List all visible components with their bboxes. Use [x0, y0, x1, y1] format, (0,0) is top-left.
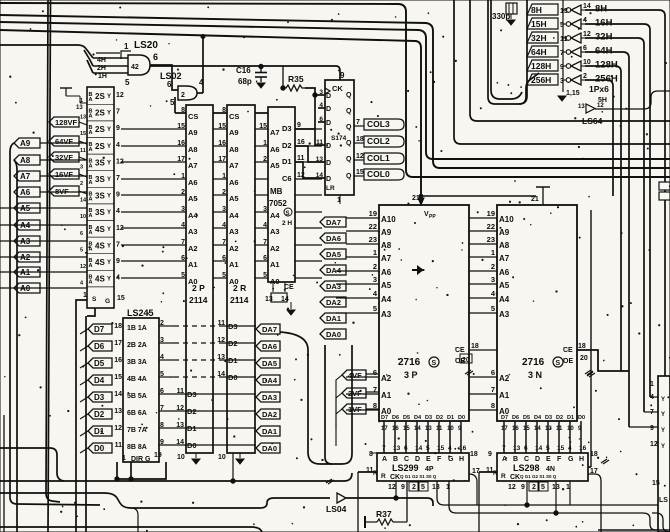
- 3N Vpp tee: [536, 186, 550, 188]
- wire inverter input rail: [519, 0, 527, 104]
- net tag 32VF: [49, 152, 79, 162]
- wire nest line from top edge B: [470, 0, 670, 121]
- svg-text:A1: A1: [270, 260, 280, 269]
- net tag DA0 at EPROM: [320, 329, 346, 339]
- svg-text:Q: Q: [346, 92, 352, 99]
- net tag D7: [88, 324, 112, 334]
- svg-text:A5: A5: [381, 281, 392, 290]
- svg-text:2S: 2S: [95, 125, 105, 134]
- svg-text:2 H: 2 H: [282, 220, 292, 227]
- net tag 1VF: [342, 404, 366, 414]
- svg-text:8VF: 8VF: [55, 187, 69, 196]
- svg-text:2H: 2H: [97, 65, 106, 72]
- svg-text:C: C: [524, 456, 529, 463]
- svg-text:A7: A7: [20, 172, 31, 181]
- RAM U2P 2114 box: [186, 105, 213, 453]
- svg-text:13: 13: [393, 445, 401, 452]
- svg-text:H: H: [579, 456, 584, 463]
- svg-text:12: 12: [650, 441, 658, 448]
- svg-text:2: 2: [532, 484, 536, 491]
- svg-text:32H: 32H: [595, 32, 613, 43]
- net tag A8: [14, 155, 40, 165]
- net tag 16VF: [49, 169, 79, 179]
- net tag DA3 at EPROM: [320, 281, 346, 291]
- net tag D0: [88, 443, 112, 453]
- wire LS299 pin9 to R37 node: [406, 481, 408, 522]
- svg-text:4VF: 4VF: [348, 371, 362, 380]
- svg-text:2B 2A: 2B 2A: [127, 342, 147, 349]
- svg-text:9: 9: [340, 71, 345, 80]
- svg-text:15: 15: [437, 445, 445, 452]
- svg-text:4: 4: [448, 445, 452, 452]
- svg-text:D3: D3: [282, 124, 292, 133]
- svg-text:15H: 15H: [531, 19, 547, 29]
- wire LS02 input from CS net: [174, 97, 176, 113]
- svg-text:7: 7: [650, 409, 654, 416]
- direction arrow on A7 row: [412, 267, 422, 273]
- svg-text:12: 12: [583, 31, 591, 38]
- svg-text:4: 4: [222, 222, 226, 229]
- svg-text:5: 5: [263, 272, 267, 279]
- svg-text:16: 16: [218, 140, 226, 147]
- wire data row 2: [159, 410, 256, 412]
- IC partial at right edge: [658, 376, 670, 532]
- svg-text:R35: R35: [288, 74, 304, 84]
- svg-text:11: 11: [316, 139, 323, 146]
- svg-text:Q: Q: [346, 108, 352, 115]
- inverter 32H: [571, 33, 581, 43]
- svg-text:A7: A7: [229, 161, 239, 170]
- wire xH output down x=650: [585, 24, 650, 397]
- svg-text:3: 3: [263, 206, 267, 213]
- svg-text:A: A: [502, 456, 507, 463]
- svg-text:5: 5: [421, 484, 425, 491]
- net tag 64VF: [49, 136, 79, 146]
- wire data row 4: [159, 376, 174, 378]
- svg-text:4N: 4N: [546, 466, 555, 473]
- svg-text:S: S: [432, 360, 437, 367]
- svg-text:R: R: [501, 473, 506, 480]
- svg-text:D6: D6: [392, 415, 399, 421]
- wire LS299 pin1 down: [449, 481, 670, 530]
- svg-text:64VF: 64VF: [55, 137, 73, 146]
- svg-text:9: 9: [650, 425, 654, 432]
- svg-text:7: 7: [116, 109, 120, 116]
- svg-text:D3: D3: [94, 393, 105, 402]
- PROM MB7052 box: [268, 107, 295, 282]
- svg-text:A9: A9: [229, 128, 239, 137]
- svg-text:A4: A4: [381, 295, 392, 304]
- svg-text:A5: A5: [229, 194, 239, 203]
- svg-text:A8: A8: [381, 241, 392, 250]
- wire Vpp branch to 3N: [421, 195, 536, 197]
- svg-text:A3: A3: [270, 227, 280, 236]
- svg-text:DA2: DA2: [262, 410, 277, 419]
- svg-text:A: A: [382, 456, 387, 463]
- svg-text:32H: 32H: [531, 33, 547, 43]
- svg-text:D1: D1: [447, 415, 454, 421]
- svg-text:6: 6: [491, 368, 495, 377]
- wire top bus line 1: [0, 3, 670, 177]
- wire LS02 output: [197, 92, 203, 94]
- wire data row 6: [159, 342, 174, 344]
- net tag D5: [88, 358, 112, 368]
- svg-text:A3: A3: [229, 227, 239, 236]
- net tag D2: [88, 409, 112, 419]
- net tag A9: [14, 138, 40, 148]
- svg-text:5: 5: [546, 445, 550, 452]
- wire top bus line 3: [0, 22, 670, 159]
- wire LS245 dir/g loop: [117, 462, 166, 479]
- svg-text:8: 8: [181, 107, 185, 114]
- net tag DA7: [256, 324, 280, 334]
- svg-text:14: 14: [316, 172, 324, 179]
- svg-text:16: 16: [579, 445, 587, 452]
- svg-text:A: A: [89, 147, 93, 153]
- svg-text:5: 5: [125, 78, 130, 87]
- wire address row y=245: [121, 244, 322, 246]
- inverter 8H: [571, 5, 581, 15]
- wire mux select to bottom bus: [76, 300, 87, 532]
- svg-text:Q: Q: [346, 124, 352, 131]
- svg-text:2716: 2716: [398, 357, 421, 368]
- net tag 8H input: [527, 4, 558, 15]
- svg-text:A6: A6: [229, 178, 239, 187]
- svg-text:17: 17: [218, 156, 226, 163]
- svg-text:G: G: [568, 456, 574, 463]
- svg-text:Y: Y: [107, 127, 111, 133]
- svg-text:12: 12: [80, 264, 86, 270]
- svg-text:3S: 3S: [95, 175, 105, 184]
- svg-text:5: 5: [222, 272, 226, 279]
- svg-text:DA7: DA7: [262, 325, 277, 334]
- svg-text:1: 1: [83, 292, 87, 299]
- wire R35 node down to S174 pin 11: [315, 95, 325, 145]
- wire xH output down x=665: [585, 10, 665, 376]
- svg-text:6: 6: [222, 255, 226, 262]
- svg-text:1,15: 1,15: [566, 90, 580, 97]
- svg-text:2S: 2S: [95, 142, 105, 151]
- svg-text:3: 3: [373, 275, 377, 284]
- svg-text:6B 6A: 6B 6A: [127, 410, 147, 417]
- net tag A0: [14, 283, 40, 293]
- wire data row 1: [159, 427, 256, 429]
- svg-text:16: 16: [459, 445, 467, 452]
- svg-text:6: 6: [373, 368, 377, 377]
- wire right IC dashes: [657, 462, 659, 476]
- svg-text:A6: A6: [381, 268, 392, 277]
- svg-text:COL2: COL2: [367, 136, 390, 146]
- svg-text:A8: A8: [499, 241, 510, 250]
- svg-text:A9: A9: [188, 128, 198, 137]
- svg-text:9: 9: [401, 484, 405, 491]
- wire LS299 pin12 to LS04 net: [395, 481, 397, 498]
- svg-text:1: 1: [122, 455, 126, 462]
- svg-text:5: 5: [426, 445, 430, 452]
- svg-text:F: F: [437, 456, 442, 463]
- svg-text:4: 4: [116, 142, 120, 149]
- svg-text:R37: R37: [376, 509, 392, 519]
- svg-text:B: B: [513, 456, 518, 463]
- net tag 4VF: [342, 370, 366, 380]
- svg-text:15: 15: [652, 480, 660, 487]
- svg-text:15: 15: [557, 445, 565, 452]
- wire feeds from left edge: [0, 207, 40, 209]
- svg-text:3S: 3S: [95, 208, 105, 217]
- svg-text:Y: Y: [661, 444, 665, 450]
- svg-text:OE: OE: [563, 358, 573, 365]
- svg-text:256H: 256H: [595, 74, 618, 85]
- svg-text:2: 2: [583, 73, 587, 80]
- svg-text:A3: A3: [499, 310, 510, 319]
- svg-text:D: D: [415, 456, 420, 463]
- svg-text:D1: D1: [567, 415, 574, 421]
- net tag DA1 at EPROM: [320, 313, 346, 323]
- svg-text:8B 8A: 8B 8A: [127, 444, 147, 451]
- svg-text:13: 13: [80, 115, 86, 121]
- svg-text:A9: A9: [499, 228, 510, 237]
- svg-text:1: 1: [181, 173, 185, 180]
- svg-text:2S: 2S: [95, 92, 105, 101]
- svg-text:A9: A9: [20, 139, 31, 148]
- svg-text:6: 6: [583, 45, 587, 52]
- gate LS20 U? 4-input NAND: [0, 45, 93, 58]
- wire LS02 output riser: [202, 36, 204, 93]
- svg-text:D: D: [326, 93, 331, 100]
- svg-text:64H: 64H: [595, 46, 613, 57]
- svg-text:3: 3: [491, 275, 495, 284]
- wire data row 0: [159, 444, 256, 446]
- svg-text:7: 7: [263, 239, 267, 246]
- svg-text:A0: A0: [188, 277, 198, 286]
- svg-text:DA6: DA6: [262, 342, 277, 351]
- svg-text:4S: 4S: [95, 241, 105, 250]
- svg-text:22: 22: [487, 222, 495, 231]
- svg-text:256H: 256H: [531, 75, 551, 85]
- wire LS64 output staircase: [595, 91, 670, 109]
- svg-text:D1: D1: [282, 157, 292, 166]
- svg-text:6: 6: [167, 80, 172, 89]
- wire nest line from top edge A: [454, 0, 670, 144]
- svg-text:1B 1A: 1B 1A: [127, 325, 147, 332]
- inverter common pins 1,15: [562, 0, 564, 92]
- svg-text:4S: 4S: [95, 225, 105, 234]
- net tag 15H input: [527, 18, 558, 29]
- svg-text:A1: A1: [188, 260, 198, 269]
- net tag A3: [14, 236, 40, 246]
- svg-text:LS02: LS02: [160, 71, 182, 81]
- svg-text:D1: D1: [94, 427, 105, 436]
- svg-text:12: 12: [114, 425, 122, 432]
- net tag DA2 at EPROM: [320, 297, 346, 307]
- wire xH output down x=629: [585, 52, 629, 427]
- svg-text:1: 1: [373, 248, 377, 257]
- svg-text:Y: Y: [661, 412, 665, 418]
- wire xH output down x=644: [585, 38, 644, 412]
- net tag DA4: [256, 375, 280, 385]
- svg-text:A6: A6: [499, 268, 510, 277]
- wire top bus line 4 to Vpp net: [0, 30, 421, 201]
- svg-text:4H: 4H: [97, 57, 106, 64]
- svg-text:D4: D4: [414, 415, 422, 421]
- svg-text:S: S: [556, 360, 561, 367]
- svg-text:13: 13: [114, 408, 122, 415]
- svg-text:23: 23: [369, 235, 377, 244]
- svg-text:LS: LS: [659, 497, 668, 504]
- register S174 box: [325, 80, 354, 195]
- svg-text:Y: Y: [107, 177, 111, 183]
- wire address row y=179: [121, 178, 322, 180]
- svg-text:D3: D3: [545, 415, 552, 421]
- svg-text:3 P: 3 P: [404, 370, 418, 380]
- svg-text:3: 3: [222, 206, 226, 213]
- svg-text:A6: A6: [270, 145, 280, 154]
- svg-text:Y: Y: [107, 243, 111, 249]
- net tag DA4 at EPROM: [320, 265, 346, 275]
- svg-text:21: 21: [531, 196, 539, 203]
- net tag A5: [14, 203, 40, 213]
- svg-text:A: A: [89, 230, 93, 236]
- net tag 2H: [93, 65, 128, 67]
- svg-text:MB: MB: [270, 187, 283, 196]
- svg-text:15: 15: [117, 295, 125, 302]
- svg-text:2114: 2114: [230, 295, 249, 305]
- svg-text:Q G1 G2 S1 S0 Q: Q G1 G2 S1 S0 Q: [520, 474, 557, 479]
- wire address row y=195: [121, 194, 322, 196]
- svg-text:13: 13: [316, 156, 324, 163]
- svg-text:S: S: [92, 296, 97, 303]
- svg-text:8: 8: [491, 401, 495, 410]
- svg-text:A6: A6: [188, 178, 198, 187]
- svg-text:CS: CS: [188, 112, 198, 121]
- svg-text:D: D: [326, 160, 331, 167]
- wire mux strobe to bottom bus: [86, 308, 95, 532]
- svg-text:7: 7: [181, 239, 185, 246]
- svg-text:A5: A5: [188, 194, 198, 203]
- svg-text:4S: 4S: [95, 275, 105, 284]
- svg-text:D2: D2: [282, 141, 292, 150]
- svg-text:DA1: DA1: [326, 314, 341, 323]
- svg-text:C6: C6: [282, 174, 292, 183]
- svg-text:A: A: [89, 163, 93, 169]
- wire top bus line 2: [0, 15, 670, 168]
- svg-text:5: 5: [373, 304, 377, 313]
- svg-text:A2: A2: [499, 374, 510, 383]
- wire long rows into 3P: [336, 270, 346, 272]
- svg-text:D: D: [326, 106, 331, 113]
- net tag A2: [14, 252, 40, 262]
- svg-text:C16: C16: [236, 66, 251, 75]
- wire A9 tag vertical bus: [10, 143, 100, 505]
- svg-text:DA3: DA3: [262, 393, 277, 402]
- svg-text:14: 14: [583, 3, 591, 10]
- svg-text:3: 3: [80, 164, 83, 170]
- svg-text:8: 8: [222, 107, 226, 114]
- svg-text:DA4: DA4: [262, 376, 278, 385]
- net tag 64H input: [527, 46, 558, 57]
- svg-text:9: 9: [297, 122, 301, 129]
- svg-text:Y: Y: [107, 260, 111, 266]
- svg-text:4S: 4S: [95, 258, 105, 267]
- wire 3P CE to right: [469, 349, 497, 351]
- svg-text:C: C: [404, 456, 409, 463]
- svg-text:2114: 2114: [189, 295, 208, 305]
- svg-text:A8: A8: [229, 145, 239, 154]
- svg-text:LR: LR: [326, 185, 335, 192]
- svg-text:14: 14: [535, 445, 543, 452]
- svg-text:A1: A1: [229, 260, 239, 269]
- svg-text:11: 11: [80, 148, 86, 154]
- svg-text:DA1: DA1: [262, 427, 277, 436]
- svg-text:D0: D0: [578, 415, 585, 421]
- svg-text:17: 17: [177, 156, 185, 163]
- svg-text:LS64: LS64: [582, 116, 603, 126]
- svg-text:F: F: [557, 456, 562, 463]
- wire LS20 output to S174 CK and R35: [150, 65, 172, 66]
- svg-text:7B 7A: 7B 7A: [127, 427, 147, 434]
- svg-text:A: A: [89, 114, 93, 120]
- net tag 8VF: [49, 186, 79, 196]
- svg-text:19: 19: [154, 452, 162, 459]
- svg-text:10: 10: [218, 454, 226, 461]
- svg-text:Y: Y: [661, 397, 665, 403]
- svg-text:9: 9: [488, 451, 492, 458]
- svg-text:LS298: LS298: [513, 463, 540, 473]
- svg-text:Q: Q: [346, 173, 352, 180]
- svg-text:14: 14: [114, 391, 122, 398]
- svg-text:D5: D5: [523, 415, 530, 421]
- svg-text:128VF: 128VF: [55, 118, 78, 127]
- svg-text:7: 7: [116, 175, 120, 182]
- svg-text:CE: CE: [455, 347, 465, 354]
- svg-text:1Px6: 1Px6: [589, 84, 609, 94]
- svg-text:S: S: [286, 211, 290, 217]
- svg-text:5: 5: [491, 304, 495, 313]
- svg-text:12: 12: [388, 484, 396, 491]
- inverter 64H: [571, 47, 581, 57]
- svg-text:19: 19: [487, 209, 495, 218]
- svg-text:3: 3: [181, 206, 185, 213]
- wire vertical x4: [3, 415, 5, 532]
- svg-text:15: 15: [218, 123, 226, 130]
- svg-text:A10: A10: [499, 215, 514, 224]
- svg-text:15: 15: [80, 131, 86, 137]
- svg-text:15: 15: [259, 123, 267, 130]
- svg-text:3S: 3S: [95, 192, 105, 201]
- svg-text:A7: A7: [499, 254, 510, 263]
- svg-text:18: 18: [578, 343, 586, 350]
- wire vertical from CE net: [590, 210, 592, 467]
- svg-text:13: 13: [578, 104, 585, 110]
- svg-text:A: A: [89, 180, 93, 186]
- shift register LS298 4N box: [497, 453, 588, 481]
- svg-text:4: 4: [181, 222, 185, 229]
- svg-text:5: 5: [80, 247, 83, 253]
- svg-text:DA5: DA5: [262, 359, 277, 368]
- svg-text:6: 6: [263, 255, 267, 262]
- wire CS net row: [175, 112, 268, 114]
- svg-text:12: 12: [597, 103, 604, 109]
- svg-text:4: 4: [568, 445, 572, 452]
- svg-text:2716: 2716: [522, 357, 545, 368]
- svg-text:DA3: DA3: [326, 282, 341, 291]
- svg-text:CE: CE: [563, 347, 573, 354]
- svg-text:Y: Y: [107, 277, 111, 283]
- svg-text:3 N: 3 N: [528, 370, 542, 380]
- svg-text:17: 17: [114, 340, 122, 347]
- svg-text:DA6: DA6: [326, 234, 341, 243]
- svg-text:A0: A0: [229, 277, 239, 286]
